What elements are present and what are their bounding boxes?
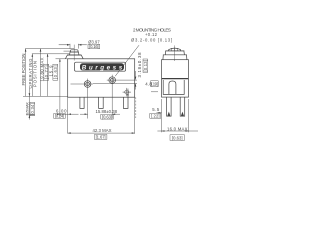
plunger dome — [71, 50, 79, 52]
svg-text:[0.24]: [0.24] — [55, 114, 64, 119]
side view dome cap — [169, 48, 181, 51]
svg-text:[0.63]: [0.63] — [172, 136, 183, 141]
svg-text:[0.13]: [0.13] — [143, 60, 148, 72]
ext line lever tip — [59, 59, 61, 116]
mounting hole left — [82, 79, 93, 90]
left dim line 15.9 — [47, 54, 49, 97]
side leg left — [167, 97, 172, 116]
Burgess dark band — [80, 63, 124, 70]
left dim line free position — [25, 49, 27, 97]
ext line body right — [134, 97, 136, 133]
svg-text:[1.67]: [1.67] — [96, 135, 106, 140]
svg-text:8.5 MAX: 8.5 MAX — [24, 102, 29, 115]
svg-text:+0.12: +0.12 — [145, 32, 158, 37]
front view body — [68, 59, 135, 97]
svg-text:15.88±0.38: 15.88±0.38 — [96, 109, 118, 114]
svg-text:42.3 MAX: 42.3 MAX — [93, 128, 112, 133]
dim 15.88 arrows — [80, 113, 120, 115]
terminal 1 — [80, 97, 84, 108]
dim 8.5 max vertical line — [28, 88, 30, 120]
left dim line operating position — [31, 54, 33, 97]
svg-text:[0.63]: [0.63] — [53, 66, 58, 80]
svg-text:FREE POSITION: FREE POSITION — [21, 54, 26, 86]
svg-text:[.22]: [.22] — [151, 113, 160, 118]
svg-text:16.0 MAX: 16.0 MAX — [167, 126, 188, 131]
left dim line 19.80 — [40, 49, 42, 97]
terminal end reference line left — [26, 114, 34, 116]
side view arch — [169, 81, 176, 94]
leg notches — [167, 112, 184, 117]
svg-text:3.18±0.38: 3.18±0.38 — [137, 52, 142, 78]
dim 3.18 vertical arrows right of body — [135, 71, 137, 90]
ext line hole right — [111, 86, 113, 119]
side view collar step2 — [163, 55, 187, 60]
hole centerline left extension — [71, 83, 83, 85]
terminal 3 — [123, 97, 128, 108]
side view window — [163, 80, 184, 94]
intermediate line — [64, 50, 71, 52]
side view body — [162, 60, 189, 97]
operating position line — [32, 53, 69, 55]
terminal 2 — [99, 97, 104, 108]
hole centerline right extension — [93, 83, 137, 85]
ext line hole left — [87, 89, 89, 118]
side leg right — [180, 97, 185, 116]
bottom reference line left — [23, 95, 68, 97]
plunger centerline — [73, 45, 75, 61]
side view centerline — [174, 45, 176, 61]
svg-text:[.19]: [.19] — [151, 81, 158, 86]
dim 16.0 line — [157, 130, 198, 132]
svg-text:5.5: 5.5 — [152, 107, 160, 112]
side ext lines — [161, 99, 163, 132]
free position line — [25, 48, 74, 50]
dim 42.3 line — [68, 132, 135, 134]
target cross reference — [123, 88, 131, 96]
dim 6.00 line — [60, 113, 79, 115]
mounting hole right — [107, 75, 118, 86]
svg-text:[0.34]: [0.34] — [30, 103, 35, 115]
side view dark band — [162, 78, 188, 80]
dim 5.5 — [157, 112, 162, 114]
svg-text:[0.16]: [0.16] — [89, 44, 98, 49]
dim cross-to-bottom arrow — [127, 89, 129, 98]
side view collar step1 — [165, 51, 184, 55]
ext line body left — [67, 97, 69, 133]
leader to mounting holes note — [115, 45, 139, 76]
svg-text:[0.63]: [0.63] — [102, 114, 112, 119]
hidden dashed line under body right — [135, 97, 137, 118]
dim arrows plunger dia — [59, 44, 87, 46]
svg-text:POSITION: POSITION — [32, 61, 37, 87]
svg-text:Ø3.2-0.00 [0.13]: Ø3.2-0.00 [0.13] — [131, 38, 172, 43]
plunger collar — [65, 55, 83, 59]
Burgess label band outline — [75, 62, 126, 71]
